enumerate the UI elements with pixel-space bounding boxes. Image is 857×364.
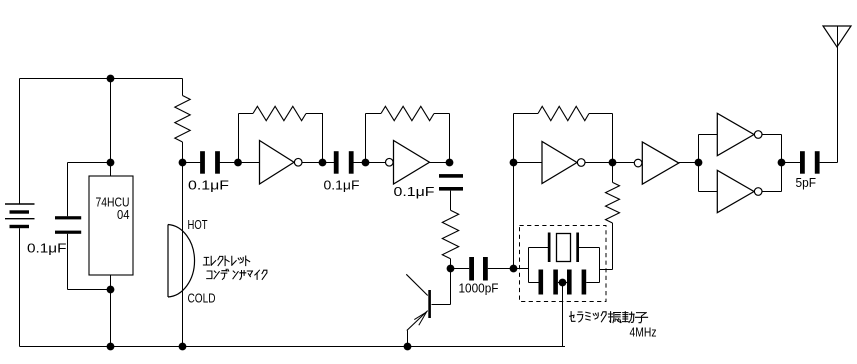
wire stage2 feedback down to output bbox=[449, 114, 451, 163]
inverter U1B bbox=[386, 141, 430, 185]
svg-text:0.1μF: 0.1μF bbox=[394, 184, 435, 199]
wire bottom ground rail bbox=[20, 346, 566, 348]
wire battery to ground rail bbox=[19, 228, 21, 346]
label 4MHz bbox=[630, 325, 657, 340]
junction combiner node bbox=[778, 159, 786, 167]
junction stage3 input node top bbox=[510, 159, 518, 167]
wire C5 right lead bbox=[488, 268, 514, 270]
label HOT bbox=[188, 217, 208, 232]
wire node down to base row bbox=[450, 269, 452, 305]
junction stage2 input node bbox=[362, 159, 370, 167]
wire C6 to antenna elbow bbox=[820, 162, 838, 164]
wire stage2 feedback up bbox=[365, 114, 367, 163]
wire stage3 out to U1D bbox=[613, 162, 635, 164]
label C4 value 0.1uF bbox=[394, 184, 435, 199]
wire antenna stem bbox=[837, 26, 839, 163]
wire Vcc vertical bbox=[110, 79, 112, 177]
wire base lead bbox=[432, 304, 451, 306]
junction mic cold at ground rail bbox=[179, 343, 187, 351]
wire node to C1 top elbow bbox=[68, 162, 111, 164]
label mic text line2 (kondensamaiku) bbox=[207, 269, 267, 279]
capacitor C6 5pF bbox=[800, 151, 820, 174]
wire stage2 feedback top left lead bbox=[366, 113, 382, 115]
wire stage3 input vertical bbox=[513, 163, 515, 269]
wire crystal right lead bbox=[579, 247, 600, 249]
wire U1E output bbox=[762, 134, 782, 136]
wire combiner to C6 bbox=[782, 162, 801, 164]
electret condenser microphone MK1 bbox=[168, 225, 195, 298]
battery BT1 bbox=[5, 204, 35, 228]
wire left vertical (battery branch) bbox=[19, 79, 21, 205]
label C2 value 0.1uF bbox=[188, 177, 229, 192]
wire resonator input into box bbox=[514, 268, 529, 270]
capacitor CL1 (internal load cap) bbox=[539, 270, 558, 295]
wire stage1 out to C3 bbox=[323, 162, 335, 164]
wire to U1E input bbox=[699, 134, 718, 136]
junction ground rail at x110 bbox=[107, 343, 115, 351]
svg-text:COLD: COLD bbox=[188, 291, 216, 306]
wire R6 to resonator right bbox=[600, 269, 613, 271]
resistor R6 bbox=[606, 182, 620, 223]
antenna ANT1 bbox=[823, 26, 851, 47]
svg-text:5pF: 5pF bbox=[796, 175, 817, 190]
label mic text line1 (erekutoretto) bbox=[203, 256, 249, 266]
wire resonator right bracket bbox=[599, 248, 601, 283]
wire mic node to C2 bbox=[183, 162, 201, 164]
transistor Q1 (PNP) bbox=[406, 274, 431, 330]
wire stage1 feedback top right lead bbox=[306, 113, 323, 115]
wire load caps center link bbox=[558, 282, 567, 284]
resistor R2 stage1 feedback bbox=[253, 106, 306, 120]
wire C5 left lead bbox=[451, 268, 470, 270]
wire U1D output bbox=[679, 162, 699, 164]
wire load caps left lead bbox=[529, 282, 539, 284]
wire C1 top lead bbox=[67, 163, 69, 217]
inverter U1C bbox=[542, 142, 585, 184]
resistor R1 (mic load) bbox=[175, 96, 190, 143]
IC U1 74HCU04 power box bbox=[89, 176, 133, 275]
svg-text:4MHz: 4MHz bbox=[630, 325, 657, 340]
junction splitter node bbox=[695, 159, 703, 167]
label U1 name 04 bbox=[117, 207, 130, 222]
resistor R4 bbox=[442, 210, 458, 258]
junction stage3 output node bbox=[609, 159, 617, 167]
capacitor C4 0.1uF plates bbox=[439, 174, 463, 191]
wire resonator left bracket bbox=[528, 248, 530, 283]
junction stage1 input node bbox=[234, 159, 242, 167]
wire C1 bottom lead bbox=[67, 234, 69, 290]
svg-text:1000pF: 1000pF bbox=[459, 281, 499, 296]
svg-text:04: 04 bbox=[117, 207, 130, 222]
wire stage3 feedback top right lead bbox=[589, 113, 613, 115]
wire center tap to ground rail bbox=[562, 283, 564, 347]
label C6 value 5pF bbox=[796, 175, 817, 190]
wire R1 bottom lead to mic node bbox=[182, 142, 184, 163]
label C5 value 1000pF bbox=[459, 281, 499, 296]
junction stage2 output node bbox=[446, 159, 454, 167]
wire U1F output bbox=[762, 191, 782, 193]
label C3 value 0.1uF bbox=[324, 177, 360, 192]
junction R4 / C5 / base node bbox=[447, 265, 455, 273]
inverter U1D buffer bbox=[634, 142, 679, 184]
label U1 name 74HCU bbox=[96, 195, 130, 210]
junction C1 / U1 ground node bbox=[107, 286, 115, 294]
junction Vcc node at signal row bbox=[107, 159, 115, 167]
label resonator text (seramikku shindoushi) bbox=[570, 312, 648, 323]
inverter U1A bbox=[260, 141, 303, 185]
dashed enclosure (resonator module) bbox=[520, 226, 607, 302]
capacitor C2 0.1uF bbox=[200, 151, 220, 174]
wire load caps right lead bbox=[586, 282, 599, 284]
svg-text:HOT: HOT bbox=[188, 217, 208, 232]
wire crystal left lead bbox=[529, 247, 549, 249]
wire R6 top lead bbox=[612, 163, 614, 183]
wire C3 to stage2 input bbox=[353, 162, 385, 164]
label C1 value 0.1uF bbox=[27, 240, 67, 255]
wire splitter vertical bbox=[698, 135, 700, 192]
wire C1 to node elbow bbox=[68, 289, 111, 291]
wire U1A output bbox=[302, 162, 322, 164]
wire stage3 input to U1C bbox=[514, 162, 543, 164]
wire stage1 feedback down to output bbox=[322, 114, 324, 163]
inverter U1E (parallel top) bbox=[717, 113, 762, 155]
capacitor C3 0.1uF bbox=[334, 151, 354, 174]
wire mic hot vertical through mic to ground bbox=[182, 163, 184, 347]
resistor R5 stage3 feedback bbox=[538, 106, 589, 120]
capacitor C5 1000pF bbox=[469, 257, 488, 281]
junction mic hot node bbox=[179, 159, 187, 167]
wire C4 bottom lead bbox=[450, 191, 452, 211]
junction stage1 output node bbox=[319, 159, 327, 167]
wire stage3 feedback down to output bbox=[612, 114, 614, 163]
junction resonator input node bbox=[510, 265, 518, 273]
svg-text:0.1μF: 0.1μF bbox=[188, 177, 229, 192]
wire to U1F input bbox=[699, 191, 718, 193]
svg-text:0.1μF: 0.1μF bbox=[27, 240, 67, 255]
wire U1 box bottom to node bbox=[110, 275, 112, 290]
wire top rail corner down to R1 bbox=[182, 79, 184, 96]
label COLD bbox=[188, 291, 216, 306]
inverter U1F (parallel bottom) bbox=[717, 170, 762, 212]
wire stage3 feedback top left lead bbox=[514, 113, 539, 115]
junction top rail / Vcc bbox=[107, 75, 115, 83]
wire R4 to node bbox=[450, 259, 452, 269]
wire stage2 feedback top right lead bbox=[434, 113, 450, 115]
capacitor C1 0.1uF plates bbox=[55, 216, 81, 234]
wire stage1 feedback top left lead bbox=[239, 113, 254, 115]
wire top rail bbox=[20, 78, 183, 80]
capacitor CL2 (internal load cap) bbox=[567, 270, 586, 295]
wire R6 bottom lead bbox=[612, 223, 614, 270]
junction Q1 emitter at ground rail bbox=[404, 343, 412, 351]
wire combiner vertical bbox=[781, 135, 783, 192]
wire U1C output bbox=[585, 162, 612, 164]
wire stage1 feedback up bbox=[238, 114, 240, 163]
ceramic resonator X1 crystal element bbox=[548, 233, 579, 263]
wire stage3 feedback up bbox=[513, 114, 515, 163]
svg-text:0.1μF: 0.1μF bbox=[324, 177, 360, 192]
junction load caps center tap bbox=[559, 279, 567, 287]
wire U1 node to ground rail bbox=[110, 290, 112, 347]
wire U1B output bbox=[430, 162, 450, 164]
resistor R3 stage2 feedback bbox=[381, 106, 434, 120]
wire Q1 emitter to ground rail bbox=[407, 331, 409, 347]
wire C2 to stage1 input bbox=[220, 162, 260, 164]
